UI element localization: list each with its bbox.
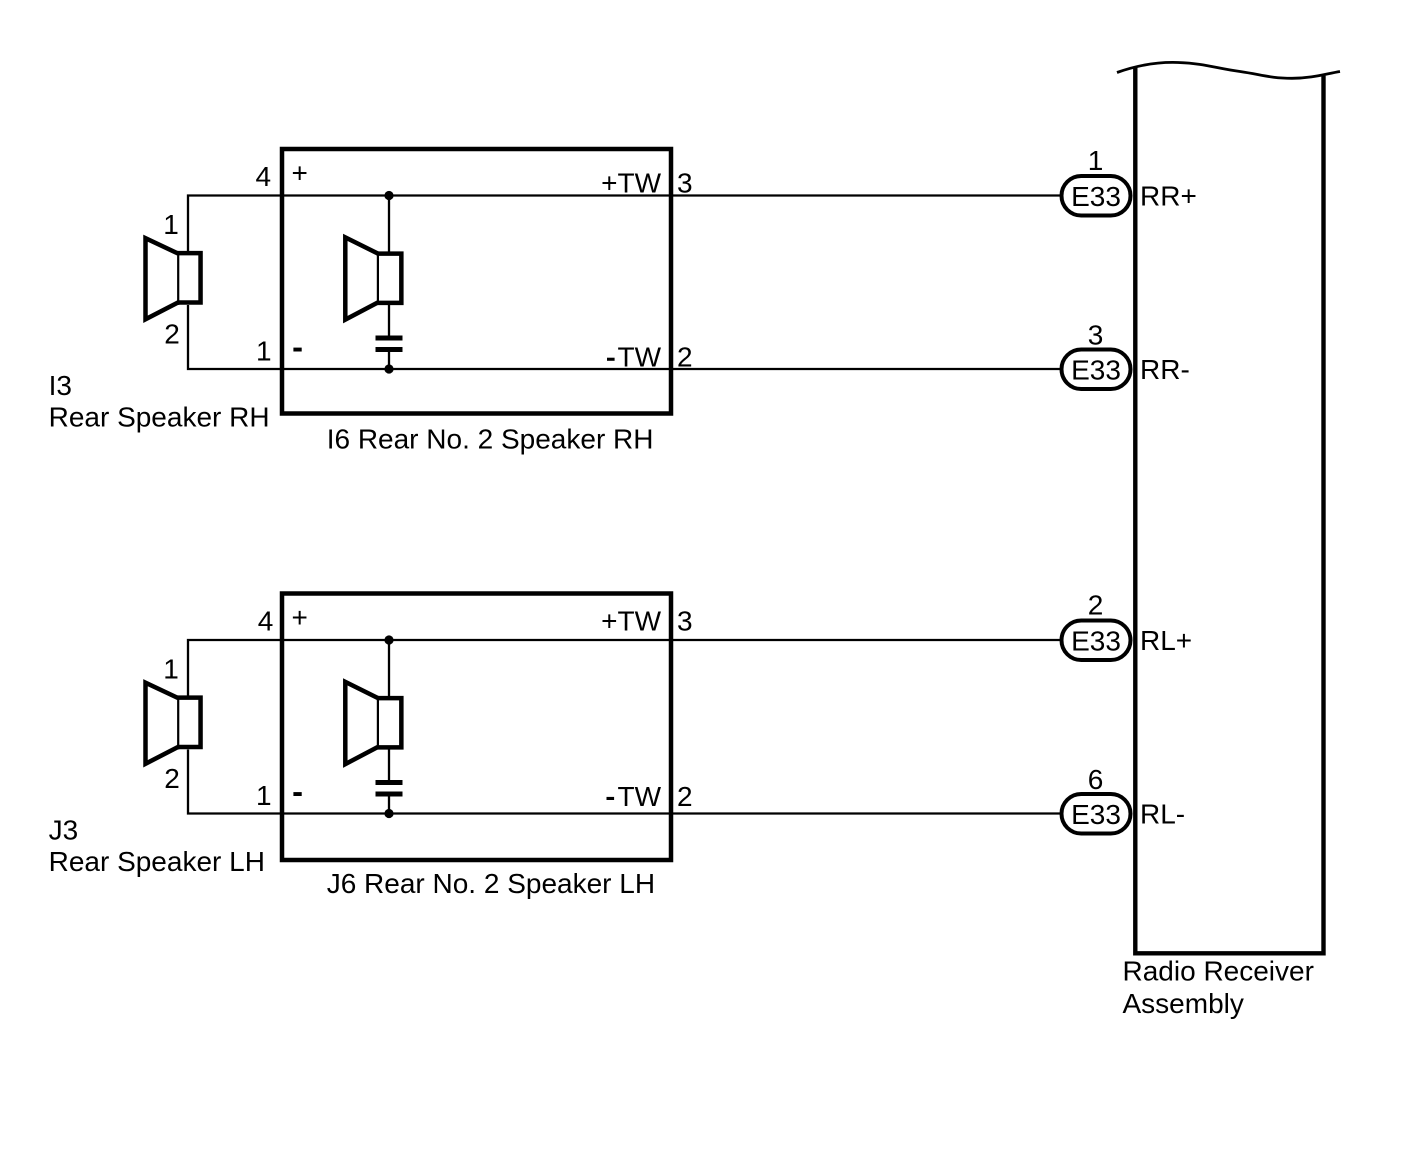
wire from tweeter down to capacitor [388, 748, 390, 781]
- polarity label (inside box, bottom left) [293, 348, 301, 352]
svg-text:4: 4 [256, 161, 272, 192]
svg-text:RR-: RR- [1140, 354, 1190, 385]
svg-text:3: 3 [677, 168, 693, 199]
capacitor C plate 2 [376, 347, 403, 352]
junction dot top (tweeter tap on + wire) [384, 191, 393, 200]
capacitor C plate 2 [376, 792, 403, 797]
svg-text:3: 3 [677, 605, 693, 636]
connector E33 pin 3 oval [1062, 350, 1131, 390]
svg-text:TW: TW [617, 781, 661, 812]
svg-text:1: 1 [256, 336, 272, 367]
svg-text:TW: TW [617, 341, 661, 372]
svg-text:I6 Rear No. 2 Speaker RH: I6 Rear No. 2 Speaker RH [327, 424, 654, 455]
svg-text:Rear Speaker LH: Rear Speaker LH [49, 846, 265, 877]
-TW label (inside box, bottom right) [607, 797, 615, 800]
svg-text:+TW: +TW [601, 605, 661, 636]
junction dot bottom (tweeter tap on - wire) [384, 364, 393, 373]
- polarity label (inside box, bottom left) [293, 792, 301, 796]
svg-text:2: 2 [677, 781, 693, 812]
svg-text:1: 1 [163, 209, 179, 240]
wire from top junction down to tweeter [388, 640, 390, 698]
svg-text:+TW: +TW [601, 168, 661, 199]
svg-text:+: + [292, 602, 308, 633]
svg-text:2: 2 [164, 319, 180, 350]
capacitor C (series with tweeter) plate 1 [376, 336, 403, 341]
connector E33 pin 6 oval [1062, 794, 1131, 834]
svg-text:+: + [292, 158, 308, 189]
speaker I3 (Rear Speaker RH) horn [146, 238, 179, 319]
junction dot top (tweeter tap on + wire) [384, 635, 393, 644]
svg-text:6: 6 [1088, 764, 1104, 795]
wire from J3 speaker pin 2 to connector E33 pin 6 (bottom horizontal run) [188, 750, 1060, 814]
connector E33 pin 1 oval [1062, 176, 1131, 216]
svg-text:RR+: RR+ [1140, 180, 1197, 211]
wire from top junction down to tweeter [388, 196, 390, 254]
svg-text:RL+: RL+ [1140, 625, 1192, 656]
svg-text:Radio Receiver: Radio Receiver [1123, 956, 1314, 987]
svg-text:1: 1 [1088, 145, 1104, 176]
speaker J3 driver rectangle [177, 698, 201, 747]
radio receiver assembly torn-edge wavy top [1117, 62, 1340, 78]
component box I6 Rear No. 2 Speaker RH [282, 149, 671, 414]
inner tweeter speaker of J6 : horn [345, 682, 378, 764]
svg-text:4: 4 [258, 606, 274, 637]
svg-text:RL-: RL- [1140, 798, 1185, 829]
svg-text:E33: E33 [1071, 799, 1121, 830]
svg-text:2: 2 [164, 763, 180, 794]
capacitor C (series with tweeter) plate 1 [376, 780, 403, 785]
svg-text:2: 2 [1088, 589, 1104, 620]
svg-text:E33: E33 [1071, 626, 1121, 657]
svg-text:E33: E33 [1071, 181, 1121, 212]
svg-text:2: 2 [677, 341, 693, 372]
svg-text:1: 1 [163, 653, 179, 684]
svg-text:E33: E33 [1071, 355, 1121, 386]
wire from capacitor down to bottom wire [388, 352, 390, 369]
-TW label (inside box, bottom right) [607, 358, 615, 361]
connector E33 pin 2 oval [1062, 621, 1131, 661]
svg-text:J3: J3 [49, 814, 79, 845]
svg-text:J6 Rear No. 2 Speaker LH: J6 Rear No. 2 Speaker LH [327, 868, 655, 899]
svg-text:1: 1 [256, 780, 272, 811]
wire from I3 speaker pin 2 to connector E33 pin 3 (bottom horizontal run) [188, 305, 1060, 369]
inner tweeter speaker of I6 : horn [345, 237, 378, 319]
inner tweeter speaker of J6 : driver rectangle [377, 698, 402, 747]
svg-text:I3: I3 [49, 370, 72, 401]
junction dot bottom (tweeter tap on - wire) [384, 809, 393, 818]
svg-text:3: 3 [1088, 320, 1104, 351]
radio receiver assembly box (left, bottom, right edges) [1135, 67, 1323, 953]
wire from capacitor down to bottom wire [388, 797, 390, 814]
wire from I3 speaker pin 1 to connector E33 pin 1 (top horizontal run) [188, 196, 1060, 252]
speaker J3 (Rear Speaker LH) horn [146, 683, 179, 764]
wire from tweeter down to capacitor [388, 303, 390, 336]
speaker I3 driver rectangle [177, 253, 201, 302]
component box J6 Rear No. 2 Speaker LH [282, 594, 671, 861]
inner tweeter speaker of I6 : driver rectangle [377, 254, 402, 303]
svg-text:Assembly: Assembly [1123, 988, 1244, 1019]
svg-text:Rear Speaker RH: Rear Speaker RH [49, 402, 270, 433]
wire from J3 speaker pin 1 to connector E33 pin 2 (top horizontal run) [188, 640, 1060, 696]
